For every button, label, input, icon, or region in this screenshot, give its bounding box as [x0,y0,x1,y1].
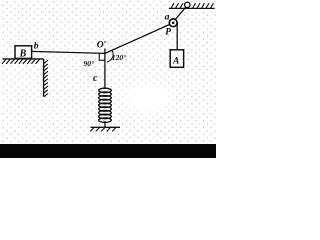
wire spring to ground [104,121,106,127]
right-angle marker at O' [99,53,105,60]
wire O' down to spring [104,53,106,88]
svg-text:90°: 90° [84,59,95,68]
svg-text:O′: O′ [97,41,107,51]
svg-text:B: B [19,48,27,59]
svg-text:c: c [93,73,98,84]
svg-text:120°: 120° [112,53,126,62]
wire rope b to O' [32,51,105,53]
svg-text:a: a [165,13,170,23]
black bar at bottom [0,144,216,158]
svg-text:P: P [165,28,171,38]
svg-text:b: b [34,41,39,51]
wire rope pulley to weight A [176,23,178,50]
pulley a [169,19,177,27]
ceiling at top right [169,7,215,9]
ground ledge under block B [3,59,44,97]
wire rope O' to pulley [105,23,173,53]
block B [15,46,32,60]
arc of 120 degree angle [107,50,113,62]
node O' stub [104,49,106,54]
hook ring on ceiling [185,2,190,7]
hatching right of ledge vertical face [44,60,48,97]
ground anchor below spring [90,127,120,131]
hatching below ledge surface [2,59,40,64]
weight A box [170,50,183,68]
spring c coils [99,88,112,122]
wire hook to pulley [175,7,186,20]
svg-text:A: A [172,56,179,66]
ceiling hatching [171,3,214,8]
